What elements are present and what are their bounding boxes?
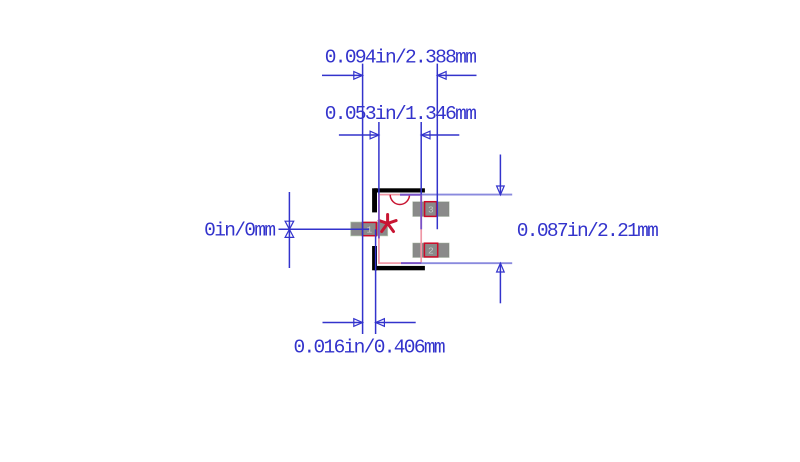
lead outline pad 3 bbox=[425, 202, 437, 217]
component body outline bbox=[379, 195, 421, 264]
dimension extension line body right bbox=[420, 122, 422, 195]
zero dimension hourglass upper arrowhead bbox=[285, 221, 294, 229]
pale blue bottom extension line bbox=[401, 262, 512, 264]
bottom dimension right arrow line bbox=[376, 322, 416, 324]
second dimension right arrow line bbox=[421, 134, 459, 136]
dimension extension line bottom-right bbox=[375, 229, 377, 334]
svg-text:2: 2 bbox=[428, 246, 434, 257]
pad 2 bbox=[413, 243, 449, 257]
arrowhead second dim left bbox=[370, 131, 379, 139]
lead outline pad 1 bbox=[363, 222, 377, 235]
svg-text:3: 3 bbox=[428, 205, 434, 216]
purple overlap left body edge bbox=[378, 195, 380, 239]
arrowhead right dim down bbox=[497, 186, 505, 195]
silkscreen bottom bar bbox=[374, 266, 425, 270]
right dimension lower arrow line bbox=[499, 263, 501, 303]
right dimension upper arrow line bbox=[499, 155, 501, 195]
svg-text:0.053in/1.346mm: 0.053in/1.346mm bbox=[325, 103, 476, 125]
bottom dimension left arrow line bbox=[323, 322, 363, 324]
svg-text:0.016in/0.406mm: 0.016in/0.406mm bbox=[293, 337, 444, 359]
lead outline pad 2 bbox=[424, 243, 437, 257]
purple overlap right body edge bbox=[420, 195, 422, 230]
purple overlap bottom body edge bbox=[401, 262, 421, 264]
arrowhead right dim up bbox=[497, 263, 505, 272]
dimension extension line far right bbox=[436, 64, 438, 230]
svg-text:0in/0mm: 0in/0mm bbox=[204, 220, 275, 242]
purple overlap top body edge bbox=[400, 194, 421, 196]
arrowhead top dim left bbox=[354, 72, 363, 80]
arrowhead bottom dim left bbox=[354, 319, 363, 327]
arrowhead top dim right bbox=[437, 72, 446, 80]
pale blue top extension line bbox=[400, 194, 512, 196]
zero dimension leader line bbox=[279, 228, 370, 230]
arrowhead second dim right bbox=[421, 131, 430, 139]
arrowhead bottom dim right bbox=[376, 319, 385, 327]
pin-1 asterisk marker bbox=[379, 215, 396, 232]
top dimension left arrow line bbox=[322, 74, 363, 76]
top dimension right arrow line bbox=[437, 74, 476, 76]
zero dimension hourglass lower arrowhead bbox=[285, 229, 294, 237]
pin-1 orientation arc bbox=[390, 195, 409, 205]
dimension extension line far left bbox=[362, 64, 364, 334]
zero dimension vertical line bbox=[288, 192, 290, 268]
silkscreen top bar bbox=[374, 188, 425, 192]
svg-text:0.094in/2.388mm: 0.094in/2.388mm bbox=[325, 46, 476, 68]
dimension extension line body left bbox=[378, 122, 380, 195]
svg-text:0.087in/2.21mm: 0.087in/2.21mm bbox=[517, 220, 658, 242]
silkscreen left upper bar bbox=[372, 188, 377, 212]
silkscreen left lower bar bbox=[372, 246, 377, 270]
pad 1 bbox=[351, 222, 388, 236]
second dimension left arrow line bbox=[339, 134, 379, 136]
pad 3 bbox=[413, 202, 449, 216]
